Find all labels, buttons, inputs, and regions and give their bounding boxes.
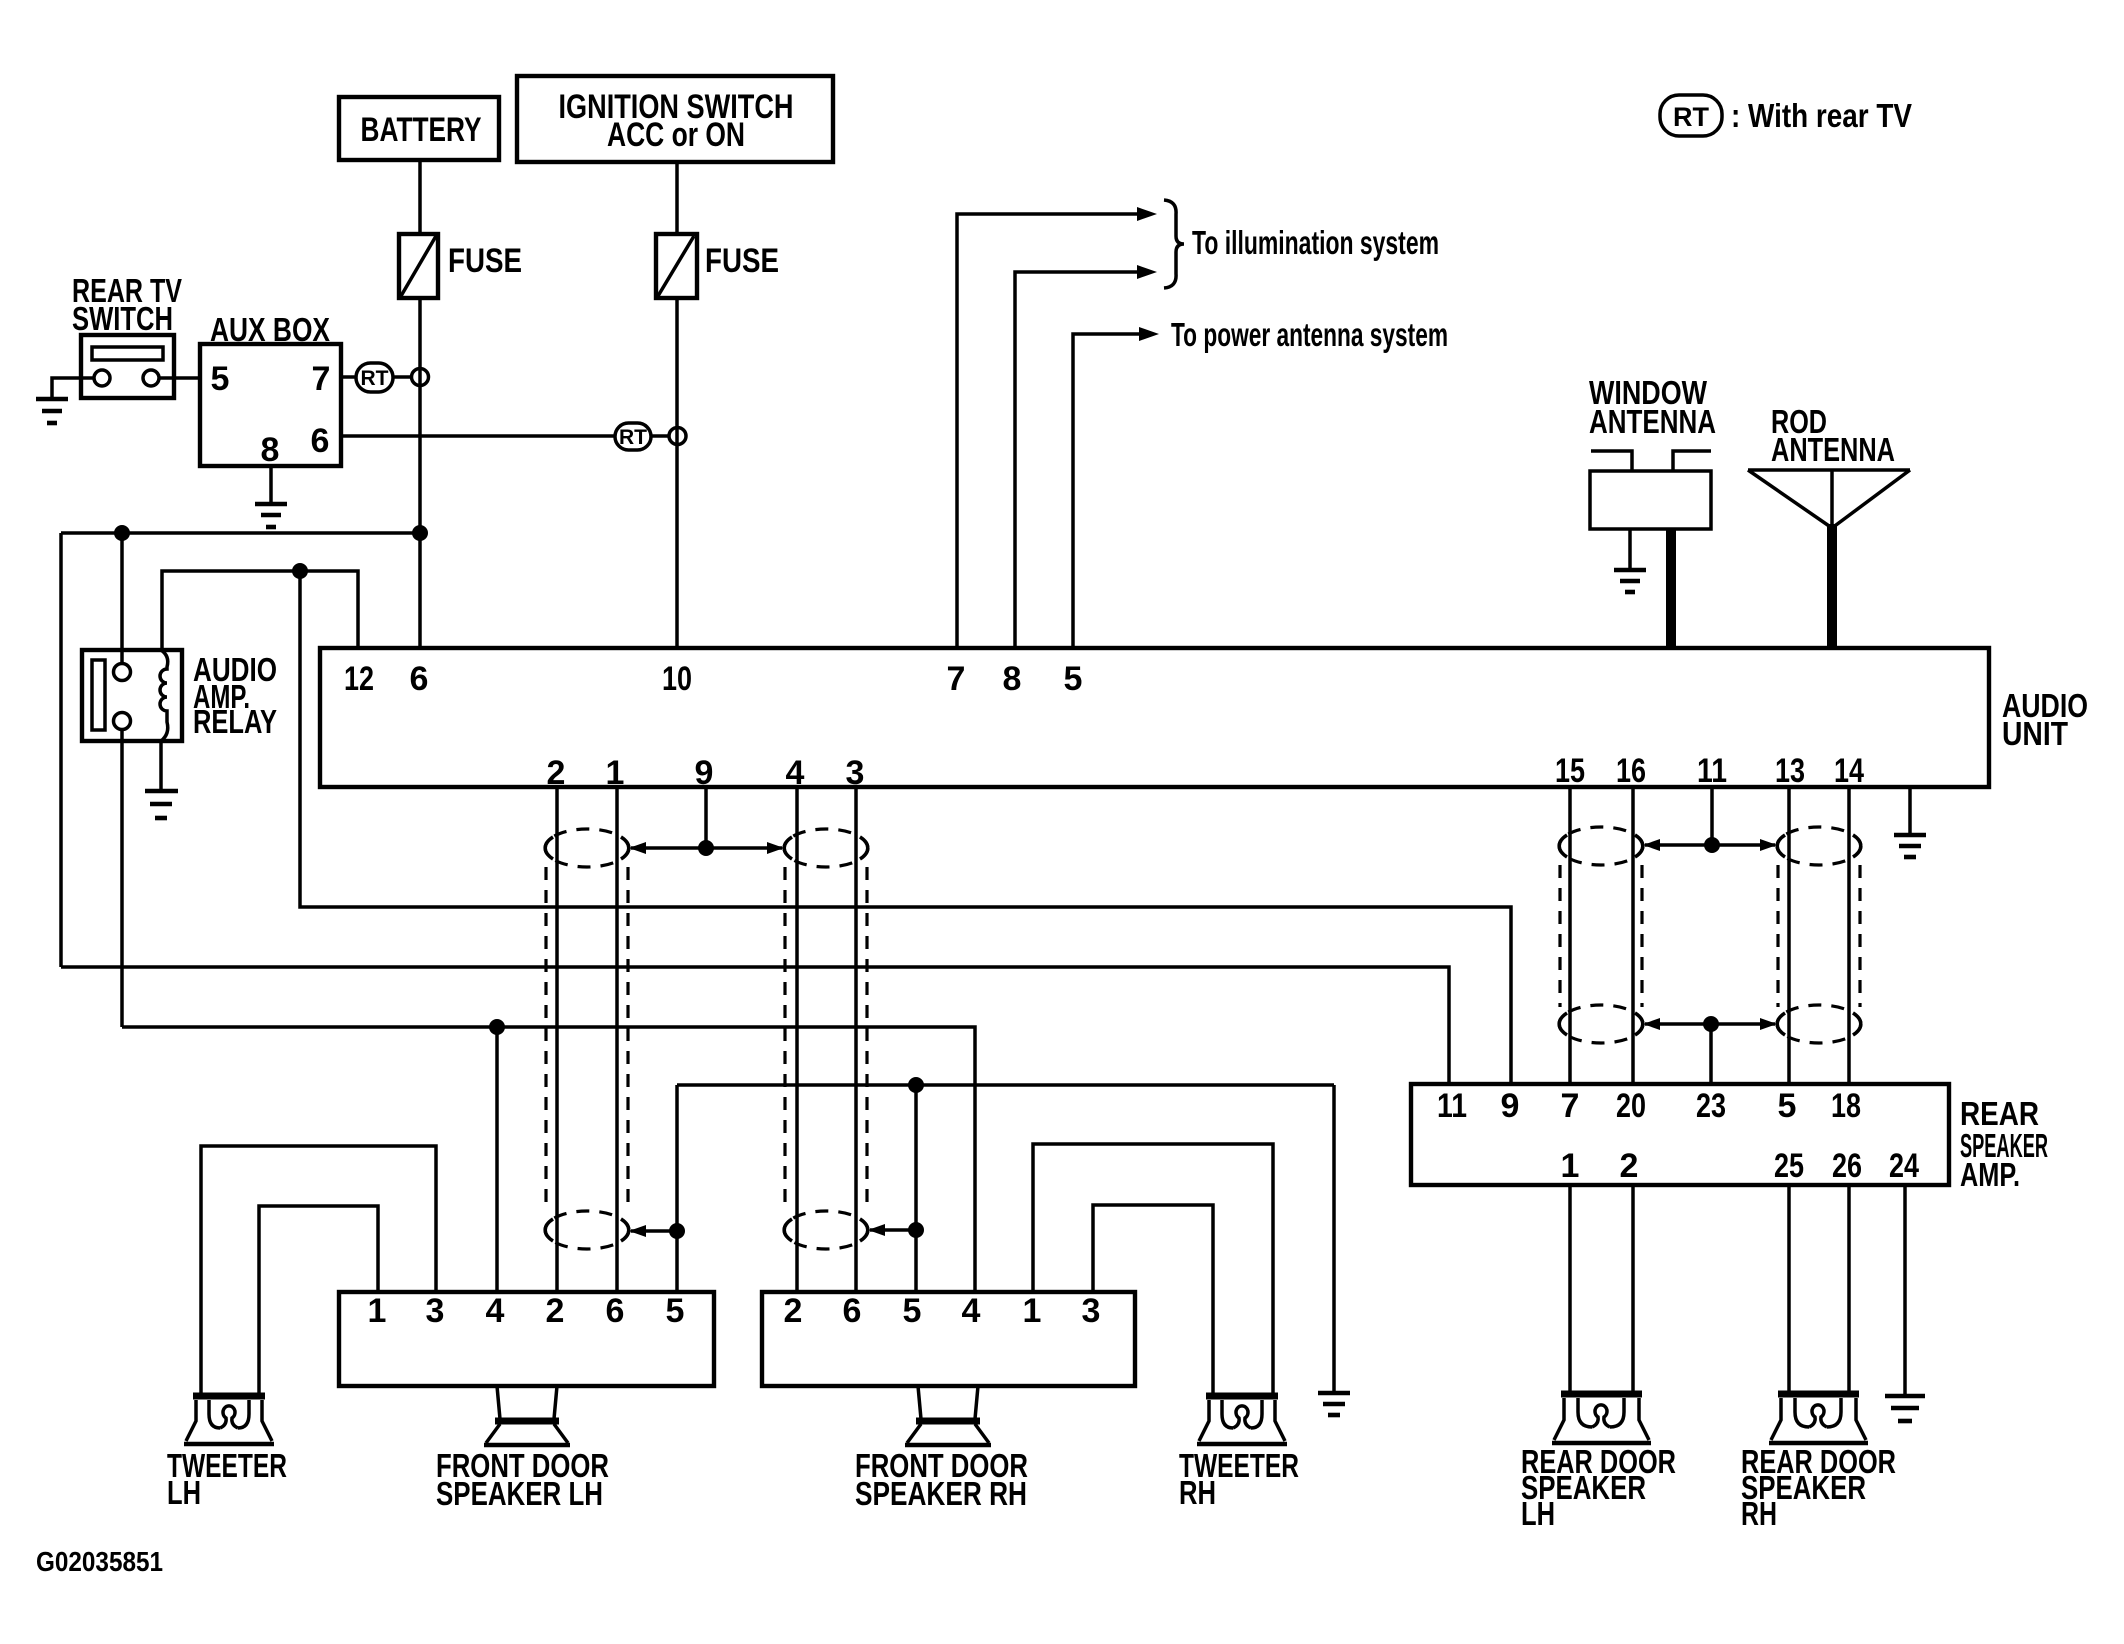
svg-text:2: 2 xyxy=(547,754,566,792)
wire rear amp pin 2 to rear speaker LH xyxy=(1631,1185,1635,1392)
RT symbol on pin 7 wire xyxy=(356,363,393,392)
wire audio pin 8 to illumination arrow 2 xyxy=(1015,272,1140,648)
svg-text:5: 5 xyxy=(903,1292,922,1330)
node dot shield right upper xyxy=(1704,837,1720,853)
wire audio pin 1 to front LH pin 6 xyxy=(615,787,619,1292)
arrowhead shield left upper b xyxy=(767,842,784,854)
node dot front LH pin 4 branch xyxy=(489,1019,505,1035)
svg-text:5: 5 xyxy=(1064,660,1083,698)
wire rear tv switch to aux box pin 5 xyxy=(159,376,200,380)
svg-text:FUSE: FUSE xyxy=(705,242,779,280)
tweeter LH symbol xyxy=(184,1396,274,1444)
svg-text:1: 1 xyxy=(606,754,625,792)
wire LH pin 5 drop xyxy=(675,1085,679,1292)
relay coil xyxy=(160,650,168,741)
svg-text:14: 14 xyxy=(1834,752,1864,790)
shield dashes pair R1 xyxy=(1560,865,1642,1007)
svg-text:LH: LH xyxy=(167,1474,201,1511)
svg-text:9: 9 xyxy=(1501,1087,1520,1125)
shield ellipse pair R2 lower xyxy=(1777,1005,1861,1043)
svg-text:FUSE: FUSE xyxy=(448,242,522,280)
wire battery feed down to audio unit pin 6 xyxy=(418,298,422,648)
wire tweeter RH minus xyxy=(1093,1205,1213,1394)
svg-text:RT: RT xyxy=(361,367,389,390)
rear door speaker RH symbol xyxy=(1769,1394,1868,1443)
connector circle on battery feed xyxy=(412,369,429,386)
fuse F2 xyxy=(656,234,779,298)
wire relay coil feed y571 xyxy=(162,571,358,650)
ground rear tv switch xyxy=(36,399,68,423)
audio unit box xyxy=(320,648,2088,787)
wire rear amp pin 24 to ground xyxy=(1903,1185,1907,1394)
front door speaker LH cone xyxy=(484,1386,570,1445)
fuse F1 xyxy=(399,234,522,298)
svg-text:13: 13 xyxy=(1775,752,1805,790)
svg-text:18: 18 xyxy=(1831,1087,1861,1125)
arrowhead shield right lower b xyxy=(1760,1018,1777,1030)
wire rear tv switch left pin to ground xyxy=(52,378,94,398)
wire line A to rear amp pin 9 xyxy=(300,571,1511,1084)
node dot LH pin5 shield xyxy=(669,1223,685,1239)
ground audio unit xyxy=(1894,835,1926,857)
wire tweeter LH minus xyxy=(259,1206,378,1394)
rear amp bottom pin labels xyxy=(1561,1147,1920,1185)
svg-text:3: 3 xyxy=(1082,1292,1101,1330)
shield ellipse pair R2 upper xyxy=(1777,827,1861,865)
node dot shield left upper xyxy=(698,840,714,856)
svg-text:ANTENNA: ANTENNA xyxy=(1771,431,1895,468)
svg-text:10: 10 xyxy=(662,660,692,698)
wire audio pin 15 to rear amp pin 7 xyxy=(1568,787,1572,1084)
svg-text:5: 5 xyxy=(211,360,230,398)
wire aux pin 7 to RT xyxy=(341,375,356,379)
front door speaker RH connector xyxy=(762,1292,1135,1386)
svg-text:LH: LH xyxy=(1521,1495,1555,1532)
wire speaker common y1085 xyxy=(677,1083,1334,1087)
svg-text:6: 6 xyxy=(606,1292,625,1330)
wire line B to rear amp pin 11 xyxy=(61,967,1449,1084)
shield dashes pair L1 xyxy=(546,867,628,1212)
wire battery to fuse xyxy=(418,160,422,234)
svg-text:ANTENNA: ANTENNA xyxy=(1589,403,1716,440)
legend RT symbol xyxy=(1660,95,1912,136)
svg-text:6: 6 xyxy=(410,660,429,698)
node dot RH pin5 shield xyxy=(908,1222,924,1238)
svg-text:15: 15 xyxy=(1555,752,1585,790)
shield ellipse pair L2 lower xyxy=(784,1211,868,1249)
shield connect L1 lower to LH pin5 xyxy=(631,1229,677,1233)
wire left rail down to line B xyxy=(59,533,63,967)
wire window antenna to ground xyxy=(1628,529,1632,569)
ground rear amp pin 24 xyxy=(1885,1396,1925,1421)
shield connect L2 lower to RH pin5 xyxy=(870,1228,916,1232)
aux box xyxy=(200,311,341,469)
ground window antenna xyxy=(1614,570,1646,592)
wire RH pin 5 drop xyxy=(914,1085,918,1292)
arrowhead shield right upper a xyxy=(1643,839,1660,851)
svg-text:RH: RH xyxy=(1741,1495,1777,1532)
wire rear amp pin 25 to rear speaker RH xyxy=(1787,1185,1791,1392)
wire relay contact from y533 xyxy=(120,533,124,664)
svg-text:6: 6 xyxy=(843,1292,862,1330)
wire audio pin 14 to rear amp pin 18 xyxy=(1847,787,1851,1084)
ignition switch box xyxy=(517,76,833,162)
wire front LH pin 4 drop xyxy=(495,1027,499,1292)
wire tweeter LH plus xyxy=(201,1146,436,1394)
window antenna feed (thick) to audio unit xyxy=(1666,529,1676,648)
arrowhead shield left upper a xyxy=(629,842,646,854)
svg-text:11: 11 xyxy=(1437,1087,1467,1125)
wire rear amp pin 1 to rear speaker LH xyxy=(1568,1185,1572,1392)
rod antenna feed (thick) to audio unit xyxy=(1827,524,1837,648)
tweeter RH symbol xyxy=(1197,1396,1287,1444)
front door speaker LH connector xyxy=(339,1292,714,1386)
shield connect right lower xyxy=(1645,1022,1775,1026)
front door speaker RH cone xyxy=(905,1386,991,1445)
svg-text:To illumination system: To illumination system xyxy=(1192,224,1439,261)
svg-text:11: 11 xyxy=(1697,752,1727,790)
audio unit bottom pin labels xyxy=(547,752,1865,792)
audio amp relay box xyxy=(82,650,182,741)
wire audio pin 16 to rear amp pin 20 xyxy=(1631,787,1635,1084)
wire RT to connector circle xyxy=(393,375,412,379)
rear tv switch xyxy=(72,272,182,398)
svg-text:RH: RH xyxy=(1179,1474,1216,1511)
wire audio pin 2 to front LH pin 2 xyxy=(555,787,559,1292)
svg-text:2: 2 xyxy=(1620,1147,1639,1185)
svg-text:RT: RT xyxy=(1673,102,1709,132)
wire shield to rear amp pin 23 xyxy=(1709,1024,1713,1084)
node dot coil feed branch xyxy=(292,563,308,579)
svg-text:4: 4 xyxy=(486,1292,505,1330)
window antenna symbol xyxy=(1590,451,1711,529)
connector circle on ignition feed xyxy=(669,428,686,445)
battery box xyxy=(339,97,499,160)
svg-text:3: 3 xyxy=(846,754,865,792)
wire relay coil to ground xyxy=(159,741,163,790)
wire horizontal feed y533 xyxy=(61,531,420,535)
wire aux pin 6 to RT xyxy=(341,434,615,438)
wire audio pin 11 shield drain xyxy=(1710,787,1714,845)
svg-text:SWITCH: SWITCH xyxy=(72,300,173,337)
shield ellipse pair L1 lower xyxy=(545,1211,629,1249)
svg-text:2: 2 xyxy=(784,1292,803,1330)
svg-text:5: 5 xyxy=(666,1292,685,1330)
svg-text:4: 4 xyxy=(786,754,805,792)
shield dashes pair L2 xyxy=(785,867,867,1212)
wire ignition to fuse xyxy=(675,162,679,234)
wire aux box pin 8 to ground xyxy=(269,466,273,503)
svg-text:SPEAKER RH: SPEAKER RH xyxy=(855,1475,1027,1512)
svg-text:7: 7 xyxy=(947,660,966,698)
wire audio pin 7 to illumination arrow 1 xyxy=(957,214,1140,648)
wire from relay contact bottom down to line C xyxy=(120,729,124,1027)
svg-text:7: 7 xyxy=(312,360,331,398)
arrowhead illumination 1 xyxy=(1137,207,1157,221)
arrowhead shield right lower a xyxy=(1643,1018,1660,1030)
wire audio pin 4 to front RH pin 2 xyxy=(795,787,799,1292)
shield ellipse pair R1 upper xyxy=(1559,827,1643,865)
wire rear amp pin 26 to rear speaker RH xyxy=(1847,1185,1851,1392)
arrowhead illumination 2 xyxy=(1137,265,1157,279)
arrowhead shield right upper b xyxy=(1760,839,1777,851)
node dot shield right lower xyxy=(1703,1016,1719,1032)
svg-text:24: 24 xyxy=(1889,1147,1919,1185)
svg-text:12: 12 xyxy=(344,660,374,698)
svg-text:AMP.: AMP. xyxy=(1960,1156,2020,1193)
arrowhead shield L2 lower xyxy=(868,1224,885,1236)
svg-text:To power antenna system: To power antenna system xyxy=(1171,316,1448,353)
arrowhead power antenna xyxy=(1139,327,1159,341)
svg-text:3: 3 xyxy=(426,1292,445,1330)
ground relay coil xyxy=(145,791,178,818)
svg-text:26: 26 xyxy=(1832,1147,1862,1185)
shield dashes pair R2 xyxy=(1778,865,1860,1007)
svg-text:9: 9 xyxy=(695,754,714,792)
rear speaker amp box xyxy=(1411,1084,2048,1193)
svg-text:2: 2 xyxy=(546,1292,565,1330)
ground front speaker common xyxy=(1318,1393,1350,1415)
svg-text:4: 4 xyxy=(962,1292,981,1330)
svg-text:G02035851: G02035851 xyxy=(36,1546,163,1577)
RT symbol on pin 6 wire xyxy=(615,423,651,450)
wire audio unit case ground xyxy=(1908,787,1912,834)
svg-text:25: 25 xyxy=(1774,1147,1804,1185)
shield connect right upper xyxy=(1645,843,1775,847)
node dot battery feed xyxy=(412,525,428,541)
svg-text:RELAY: RELAY xyxy=(193,703,277,740)
wire audio pin 3 to front RH pin 6 xyxy=(854,787,858,1292)
svg-text:ACC or ON: ACC or ON xyxy=(607,116,745,154)
node dot relay branch xyxy=(114,525,130,541)
shield connect left upper xyxy=(631,846,782,850)
svg-text:1: 1 xyxy=(1561,1147,1580,1185)
wire RT to connector circle xyxy=(651,434,669,438)
svg-text:: With rear TV: : With rear TV xyxy=(1731,97,1912,134)
svg-text:RT: RT xyxy=(619,426,647,449)
shield ellipse pair L1 upper xyxy=(545,829,629,867)
svg-text:1: 1 xyxy=(1023,1292,1042,1330)
wire common to ground xyxy=(1332,1085,1336,1392)
svg-text:20: 20 xyxy=(1616,1087,1646,1125)
svg-text:8: 8 xyxy=(1003,660,1022,698)
arrowhead shield L1 lower xyxy=(629,1225,646,1237)
svg-text:23: 23 xyxy=(1696,1087,1726,1125)
audio unit top pin labels xyxy=(344,660,1082,698)
svg-text:1: 1 xyxy=(368,1292,387,1330)
svg-text:8: 8 xyxy=(261,431,280,469)
svg-text:5: 5 xyxy=(1778,1087,1797,1125)
node dot RH pin5 branch xyxy=(908,1077,924,1093)
wire ignition feed down to audio unit pin 10 xyxy=(675,298,679,648)
ground aux box xyxy=(255,504,287,527)
wire audio pin 9 shield drain xyxy=(704,787,708,848)
wire tweeter RH plus xyxy=(1033,1144,1273,1394)
svg-text:7: 7 xyxy=(1561,1087,1580,1125)
svg-text:6: 6 xyxy=(311,422,330,460)
rear door speaker LH symbol xyxy=(1552,1394,1651,1443)
rear amp top pin labels xyxy=(1437,1087,1861,1125)
svg-text:UNIT: UNIT xyxy=(2002,715,2068,752)
brace to illumination system xyxy=(1164,200,1184,288)
wire audio pin 5 to power antenna arrow xyxy=(1073,334,1142,648)
shield ellipse pair R1 lower xyxy=(1559,1005,1643,1043)
svg-text:16: 16 xyxy=(1616,752,1646,790)
svg-text:BATTERY: BATTERY xyxy=(361,111,482,149)
rod antenna symbol xyxy=(1748,470,1910,528)
wire line C to front RH pin 4 xyxy=(122,1027,975,1292)
label audio amp relay xyxy=(193,651,277,740)
shield ellipse pair L2 upper xyxy=(784,829,868,867)
wire audio pin 13 to rear amp pin 5 xyxy=(1787,787,1791,1084)
svg-text:SPEAKER LH: SPEAKER LH xyxy=(436,1475,603,1512)
